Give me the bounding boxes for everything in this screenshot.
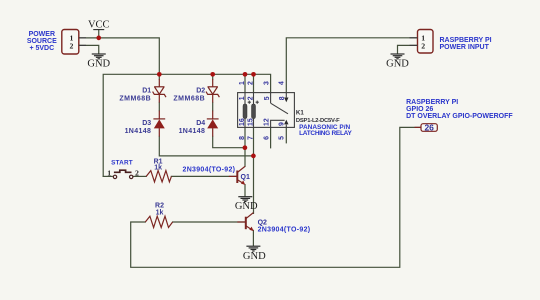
svg-text:Q2: Q2 <box>258 219 267 226</box>
svg-text:SOURCE: SOURCE <box>27 38 57 45</box>
svg-text:1: 1 <box>107 169 111 178</box>
svg-text:5: 5 <box>279 136 286 140</box>
svg-text:GND: GND <box>87 58 110 69</box>
svg-text:2: 2 <box>421 42 425 51</box>
svg-text:+ 5VDC: + 5VDC <box>29 45 54 52</box>
svg-text:POWER INPUT: POWER INPUT <box>440 44 490 51</box>
svg-text:6: 6 <box>264 136 271 140</box>
svg-text:2N3904(TO-92): 2N3904(TO-92) <box>258 226 311 233</box>
svg-text:K1: K1 <box>296 110 304 117</box>
svg-text:GND: GND <box>386 58 409 69</box>
svg-text:D3: D3 <box>142 120 151 127</box>
svg-text:5: 5 <box>264 96 271 100</box>
svg-text:ZMM68B: ZMM68B <box>173 96 205 103</box>
svg-text:15: 15 <box>247 118 254 126</box>
svg-text:12: 12 <box>264 118 271 126</box>
svg-text:1N4148: 1N4148 <box>179 128 206 135</box>
svg-text:DT OVERLAY GPIO-POWEROFF: DT OVERLAY GPIO-POWEROFF <box>406 113 513 120</box>
svg-text:2: 2 <box>247 81 254 85</box>
svg-text:4: 4 <box>279 81 286 85</box>
svg-text:2: 2 <box>248 96 255 100</box>
svg-text:1k: 1k <box>154 165 162 172</box>
svg-text:3: 3 <box>264 81 271 85</box>
svg-text:8: 8 <box>239 136 246 140</box>
svg-text:LATCHING RELAY: LATCHING RELAY <box>299 130 352 137</box>
svg-text:1: 1 <box>239 96 246 100</box>
svg-text:1N4148: 1N4148 <box>125 128 152 135</box>
svg-text:VCC: VCC <box>88 20 110 31</box>
svg-text:26: 26 <box>424 123 434 133</box>
svg-text:ZMM68B: ZMM68B <box>119 96 151 103</box>
svg-text:8: 8 <box>279 96 286 100</box>
svg-text:RASPBERRY PI: RASPBERRY PI <box>440 37 492 44</box>
svg-text:D4: D4 <box>196 120 205 127</box>
svg-text:START: START <box>111 159 133 166</box>
svg-text:7: 7 <box>247 136 254 140</box>
svg-text:2: 2 <box>135 169 139 178</box>
svg-text:1: 1 <box>239 81 246 85</box>
svg-text:9: 9 <box>279 122 286 126</box>
svg-text:Q1: Q1 <box>241 174 250 181</box>
svg-text:2: 2 <box>69 42 73 51</box>
svg-text:2N3904(TO-92): 2N3904(TO-92) <box>183 167 236 174</box>
svg-text:16: 16 <box>239 118 246 126</box>
svg-text:GND: GND <box>243 251 266 262</box>
svg-text:1k: 1k <box>156 209 164 216</box>
svg-text:POWER: POWER <box>29 31 55 38</box>
svg-text:GND: GND <box>235 201 258 212</box>
svg-text:D1: D1 <box>142 87 151 94</box>
svg-text:D2: D2 <box>196 87 205 94</box>
